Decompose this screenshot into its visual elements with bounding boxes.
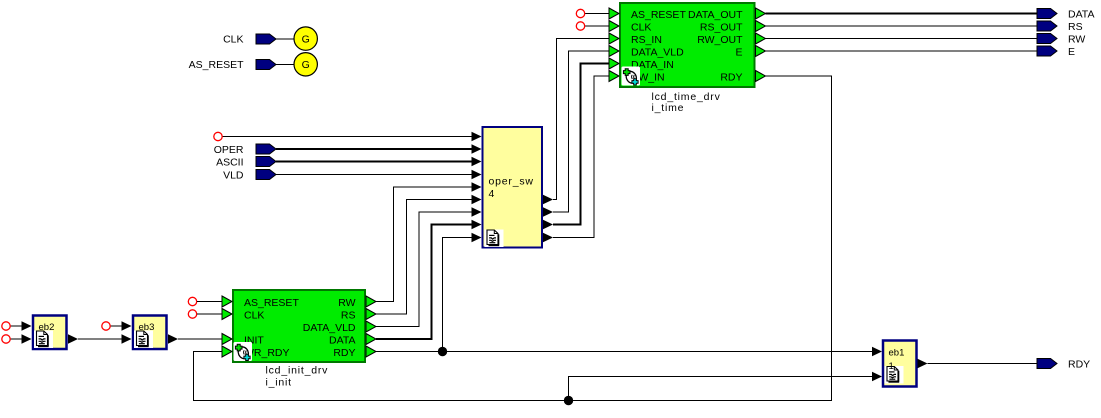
pin lcd_time DATA_IN	[609, 58, 619, 69]
svg-text:CLK: CLK	[631, 22, 651, 34]
svg-text:DATA_VLD: DATA_VLD	[303, 322, 356, 334]
open pin circle at eb2 input 1	[2, 322, 10, 330]
G clock symbol for CLK	[294, 27, 317, 50]
svg-text:DATA_VLD: DATA_VLD	[631, 47, 684, 59]
wire lcd_init RDY to eb1 input 1	[376, 351, 872, 353]
pin lcd_time RW_OUT	[756, 33, 766, 44]
input port CLK	[256, 34, 276, 44]
svg-text:VLD: VLD	[223, 170, 244, 182]
svg-text:oper_sw: oper_sw	[489, 176, 534, 188]
svg-text:E: E	[735, 47, 742, 59]
pin lcd_time DATA_VLD	[609, 46, 619, 57]
svg-text:OPER: OPER	[214, 144, 244, 156]
pin lcd_time DATA_OUT	[756, 8, 766, 19]
svg-text:AS_RESET: AS_RESET	[189, 59, 244, 71]
output port RDY	[1037, 359, 1057, 369]
open pin circle at lcd_init AS_RESET	[188, 297, 196, 305]
svg-text:AS_RESET: AS_RESET	[244, 297, 299, 309]
output arrow eb3	[168, 334, 178, 343]
input arrow oper_sw 3	[472, 157, 482, 166]
embedded block icon of eb3	[134, 331, 153, 349]
input arrow oper_sw 6	[472, 195, 482, 204]
bus lcd_time DATA_OUT to DATA port	[766, 13, 1038, 15]
wire eb1 output to RDY port	[928, 363, 1038, 365]
pin lcd_time RS_IN	[609, 33, 619, 44]
wire open pin to lcd_time AS_RESET	[585, 13, 609, 15]
junction on init RDY net	[438, 347, 447, 356]
svg-text:E: E	[1068, 46, 1075, 58]
input arrow eb2 1	[22, 321, 32, 330]
svg-text:CLK: CLK	[244, 310, 264, 322]
open pin circle at lcd_init CLK	[188, 310, 196, 318]
wire lcd_time RS_OUT to RS port	[766, 25, 1038, 27]
input port VLD	[256, 170, 276, 180]
hotspot cursor icon on lcd_time RW_IN	[622, 67, 641, 86]
wire open pin to lcd_init CLK	[197, 313, 222, 315]
output arrow oper_sw 4	[543, 233, 553, 242]
wire lcd_time RW_OUT to RW port	[766, 38, 1038, 40]
input arrow eb3 1	[122, 321, 132, 330]
svg-text:G: G	[302, 33, 310, 45]
bus oper_sw out3 to lcd_time DATA_IN	[553, 64, 609, 225]
bus ASCII port to oper_sw input 3	[276, 161, 472, 163]
wire open pin to eb2 input 2	[11, 338, 22, 340]
input arrow oper_sw 9	[472, 233, 482, 242]
svg-text:RDY: RDY	[1068, 359, 1090, 371]
pin lcd_init AS_RESET	[222, 296, 232, 307]
pin lcd_init RDY	[366, 346, 376, 357]
G clock symbol for AS_RESET	[294, 53, 317, 76]
wire eb3 output to lcd_init INIT	[178, 338, 222, 340]
open pin circle at oper_sw input 1	[214, 132, 222, 140]
svg-text:RDY: RDY	[333, 347, 355, 359]
bus OPER port to oper_sw input 2	[276, 148, 472, 150]
svg-text:RW_OUT: RW_OUT	[697, 34, 743, 46]
svg-text:eb1: eb1	[889, 348, 905, 359]
wire eb2 output to eb3 input 2	[78, 338, 122, 340]
input arrow eb1 1	[872, 347, 882, 356]
svg-text:RW: RW	[1068, 34, 1085, 46]
open pin circle at eb3 input 1	[102, 322, 110, 330]
wire branch RDY net to eb1 input 2	[569, 377, 873, 401]
svg-text:ASCII: ASCII	[216, 157, 243, 169]
wire lcd_time E to E port	[766, 50, 1038, 52]
block eb2 body	[33, 316, 67, 350]
output port DATA	[1037, 9, 1057, 19]
svg-text:RS: RS	[1068, 21, 1083, 33]
hotspot cursor icon on lcd_init WR_RDY	[234, 342, 253, 361]
svg-text:1: 1	[889, 361, 894, 372]
svg-text:DATA: DATA	[1068, 9, 1094, 21]
pin lcd_time RW_IN	[609, 71, 619, 82]
wire lcd_init RW to oper_sw input 5	[376, 187, 472, 302]
pin lcd_init INIT	[222, 334, 232, 345]
svg-text:DATA: DATA	[329, 335, 355, 347]
input arrow oper_sw 8	[472, 220, 482, 229]
pin lcd_time RS_OUT	[756, 21, 766, 32]
pin lcd_init CLK	[222, 309, 232, 320]
output arrow eb1	[918, 359, 928, 368]
pin lcd_init RS	[366, 309, 376, 320]
pin lcd_time CLK	[609, 21, 619, 32]
input port OPER	[256, 144, 276, 154]
svg-text:CLK: CLK	[223, 34, 243, 46]
output arrow eb2	[68, 334, 78, 343]
input arrow eb1 2	[872, 372, 882, 381]
output port RS	[1037, 21, 1057, 31]
input arrow eb3 2	[122, 334, 132, 343]
input arrow oper_sw 2	[472, 144, 482, 153]
input arrow oper_sw 1	[472, 132, 482, 141]
input arrow oper_sw 7	[472, 207, 482, 216]
block U1 lcd_time_drv body	[620, 3, 755, 87]
block oper_sw body	[483, 127, 543, 248]
wire branch init RDY to oper_sw input 9	[443, 238, 472, 352]
wire open pin to lcd_init AS_RESET	[197, 301, 222, 303]
svg-text:RS: RS	[341, 310, 356, 322]
input port ASCII	[256, 157, 276, 167]
block eb1 body	[883, 341, 917, 387]
input arrow oper_sw 4	[472, 170, 482, 179]
pin lcd_time RDY	[756, 71, 766, 82]
wire lcd_time RDY to lcd_init WR_RDY	[194, 76, 832, 401]
wire open pin to eb2 input 1	[11, 325, 22, 327]
wire CLK port to G symbol	[276, 38, 294, 40]
output arrow oper_sw 2	[543, 207, 553, 216]
block U2 lcd_init_drv body	[233, 290, 365, 362]
svg-text:i_time: i_time	[652, 102, 685, 114]
wire open pin to lcd_time CLK	[585, 25, 609, 27]
block eb3 body	[133, 316, 167, 350]
junction on RDY net	[564, 396, 573, 405]
svg-text:G: G	[302, 59, 310, 71]
svg-text:lcd_init_drv: lcd_init_drv	[266, 365, 329, 377]
svg-text:RS_IN: RS_IN	[631, 34, 662, 46]
svg-text:i_init: i_init	[266, 377, 292, 389]
bus lcd_init DATA to oper_sw input 8	[376, 225, 472, 340]
svg-text:RW: RW	[338, 297, 355, 309]
embedded block icon of eb1	[885, 366, 904, 384]
pin lcd_init RW	[366, 296, 376, 307]
wire oper_sw out1 to lcd_time RS_IN	[553, 39, 609, 200]
wire lcd_init RS to oper_sw input 6	[376, 200, 472, 315]
wire oper_sw out2 to lcd_time DATA_VLD	[553, 51, 609, 212]
output port E	[1037, 46, 1057, 56]
svg-text:DATA_OUT: DATA_OUT	[688, 9, 743, 21]
output arrow oper_sw 3	[543, 220, 553, 229]
open pin circle at eb2 input 2	[2, 335, 10, 343]
embedded block icon of eb2	[34, 331, 53, 349]
open pin circle at lcd_time CLK	[576, 22, 584, 30]
wire open pin to oper_sw input 1	[223, 136, 472, 138]
svg-text:RDY: RDY	[720, 72, 742, 84]
pin lcd_time AS_RESET	[609, 8, 619, 19]
input port AS_RESET	[256, 60, 276, 70]
wire open pin to eb3 input 1	[111, 325, 122, 327]
pin lcd_init DATA_VLD	[366, 321, 376, 332]
input arrow oper_sw 5	[472, 182, 482, 191]
wire oper_sw out4 to lcd_time RW_IN	[553, 76, 609, 238]
svg-text:AS_RESET: AS_RESET	[631, 9, 686, 21]
output port RW	[1037, 34, 1057, 44]
output arrow oper_sw 1	[543, 195, 553, 204]
svg-text:RS_OUT: RS_OUT	[700, 22, 743, 34]
pin lcd_time E	[756, 46, 766, 57]
wire VLD port to oper_sw input 4	[276, 174, 472, 176]
pin lcd_init DATA	[366, 334, 376, 345]
pin lcd_init WR_RDY	[222, 346, 232, 357]
open pin circle at lcd_time AS_RESET	[576, 9, 584, 17]
embedded block icon of oper_sw	[485, 230, 504, 248]
wire lcd_init DATA_VLD to oper_sw input 7	[376, 212, 472, 327]
input arrow eb2 2	[22, 334, 32, 343]
wire AS_RESET port to G symbol	[276, 64, 294, 66]
svg-text:4: 4	[489, 188, 495, 200]
